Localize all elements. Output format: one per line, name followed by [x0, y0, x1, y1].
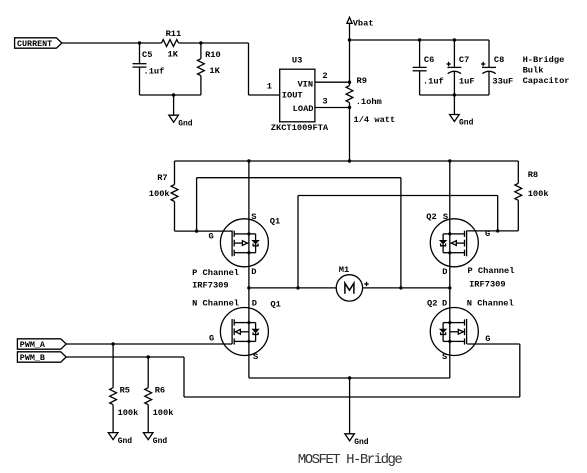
svg-text:D: D: [442, 298, 447, 308]
svg-text:VIN: VIN: [297, 79, 313, 89]
svg-text:Gnd: Gnd: [354, 438, 369, 447]
svg-text:G: G: [485, 334, 490, 344]
svg-text:D: D: [442, 267, 447, 277]
svg-text:R9: R9: [357, 76, 367, 86]
svg-text:C6: C6: [424, 55, 434, 65]
svg-text:LOAD: LOAD: [293, 104, 314, 114]
svg-text:IRF7309: IRF7309: [192, 281, 229, 291]
svg-text:M1: M1: [339, 265, 349, 275]
svg-text:.1uf: .1uf: [423, 77, 444, 87]
svg-text:100k: 100k: [149, 189, 170, 199]
svg-text:2: 2: [322, 71, 327, 81]
svg-text:ZKCT1009FTA: ZKCT1009FTA: [271, 123, 329, 133]
svg-text:C7: C7: [459, 55, 469, 65]
svg-text:N Channel: N Channel: [192, 298, 239, 308]
svg-text:N Channel: N Channel: [467, 298, 514, 308]
svg-text:Vbat: Vbat: [353, 18, 374, 28]
svg-text:Q1: Q1: [270, 216, 280, 226]
svg-text:.1uf: .1uf: [144, 66, 165, 76]
svg-text:R8: R8: [528, 170, 538, 180]
svg-text:Gnd: Gnd: [118, 437, 133, 446]
svg-text:S: S: [253, 352, 258, 362]
svg-text:1K: 1K: [209, 66, 220, 76]
svg-text:U3: U3: [292, 56, 302, 66]
svg-text:P Channel: P Channel: [192, 268, 239, 278]
svg-text:Gnd: Gnd: [178, 119, 193, 128]
svg-text:R10: R10: [205, 50, 221, 60]
svg-text:Capacitor: Capacitor: [523, 76, 570, 86]
svg-text:S: S: [251, 212, 256, 222]
svg-text:R5: R5: [120, 386, 130, 396]
svg-text:D: D: [251, 267, 256, 277]
svg-text:C8: C8: [494, 55, 504, 65]
svg-text:S: S: [443, 212, 448, 222]
svg-text:1K: 1K: [168, 50, 179, 60]
svg-text:D: D: [252, 298, 257, 308]
svg-text:100k: 100k: [153, 408, 174, 418]
svg-text:P Channel: P Channel: [468, 266, 515, 276]
svg-text:R6: R6: [155, 386, 165, 396]
svg-text:MOSFET H-Bridge: MOSFET H-Bridge: [298, 452, 403, 468]
svg-text:CURRENT: CURRENT: [17, 39, 52, 49]
svg-text:PWM_A: PWM_A: [20, 340, 46, 350]
svg-text:IRF7309: IRF7309: [469, 279, 506, 289]
svg-text:C5: C5: [142, 50, 152, 60]
svg-text:H-Bridge: H-Bridge: [523, 55, 565, 65]
svg-text:S: S: [442, 352, 447, 362]
svg-text:1/4 watt: 1/4 watt: [354, 115, 396, 125]
svg-text:1: 1: [267, 81, 272, 91]
svg-text:Q1: Q1: [270, 299, 280, 309]
svg-text:.1ohm: .1ohm: [356, 97, 382, 107]
svg-text:Q2: Q2: [427, 298, 437, 308]
svg-text:Gnd: Gnd: [153, 437, 168, 446]
svg-text:33uF: 33uF: [492, 77, 513, 87]
svg-text:PWM_B: PWM_B: [20, 353, 45, 363]
svg-text:1uF: 1uF: [459, 77, 475, 87]
svg-text:Bulk: Bulk: [523, 66, 544, 76]
svg-text:G: G: [209, 334, 214, 344]
svg-text:Gnd: Gnd: [459, 119, 474, 128]
svg-text:100k: 100k: [118, 408, 139, 418]
svg-text:IOUT: IOUT: [282, 90, 303, 100]
svg-text:R7: R7: [157, 173, 167, 183]
svg-text:Q2: Q2: [426, 212, 436, 222]
svg-text:G: G: [485, 229, 490, 239]
svg-text:R11: R11: [166, 29, 182, 39]
svg-text:100k: 100k: [528, 189, 549, 199]
svg-text:3: 3: [322, 97, 327, 107]
svg-text:G: G: [209, 232, 214, 242]
